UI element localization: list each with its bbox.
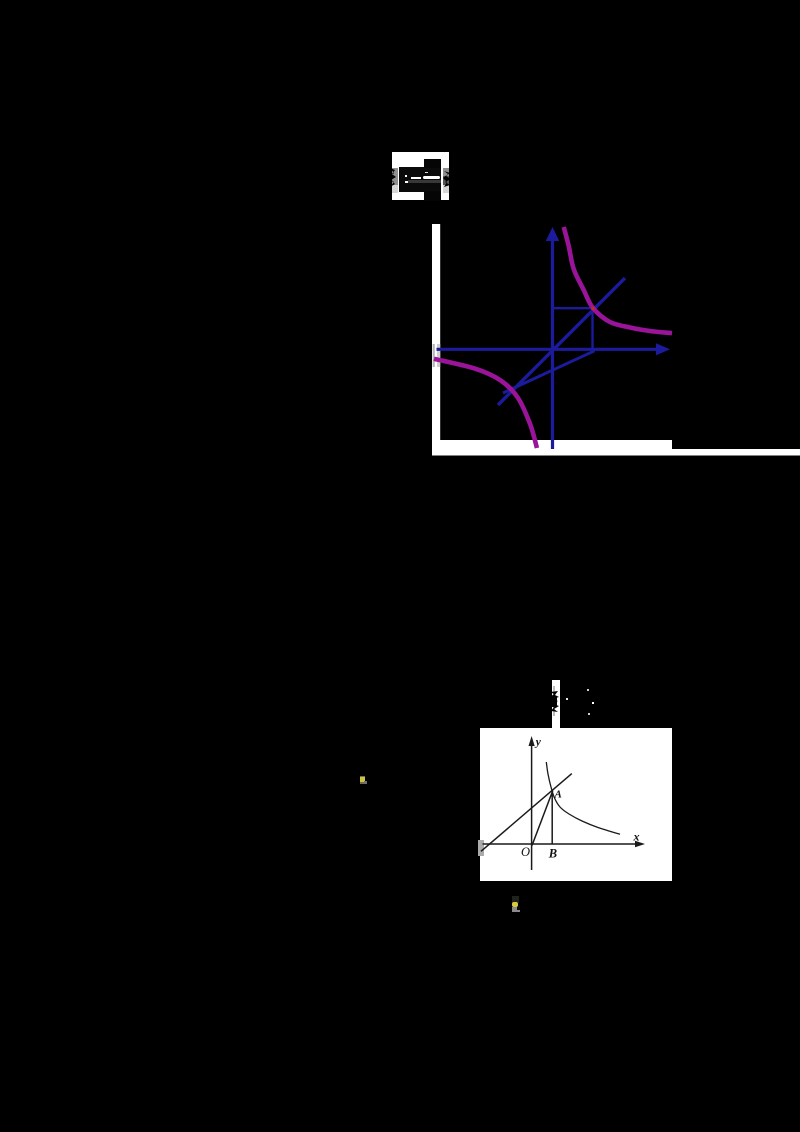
hyperbola upper branch (purple) (564, 227, 672, 333)
formula 1 right light gray patch (443, 185, 449, 193)
formula 1 right mid gray patch (443, 176, 449, 185)
x-axis (blue) (437, 348, 659, 351)
formula 1 white dot b (405, 181, 407, 183)
line OA (blue) (498, 278, 625, 405)
white speck b (587, 689, 589, 691)
line A'B (blue shallow) (503, 351, 595, 393)
svg-text:y: y (534, 737, 542, 749)
yellow icon 2 (512, 896, 520, 903)
gray smudge on left bar (433, 344, 435, 367)
white left bar (432, 224, 440, 455)
formula 1 white fraction bar (423, 176, 440, 179)
hyperbola (546, 762, 620, 834)
rectangle horizontal segment (553, 307, 593, 309)
white bottom bar (432, 440, 672, 456)
graph 2 white box (480, 728, 672, 881)
y-axis (blue) (551, 238, 554, 449)
formula 1 gray shadow band (408, 180, 441, 183)
white speck a (566, 698, 568, 700)
formula 1 right gray patch (443, 168, 449, 176)
white speck d (588, 713, 590, 715)
segment AB (551, 792, 553, 844)
formula 1 left light gray patch (392, 185, 398, 193)
formula 1 lower black tab (424, 191, 441, 201)
formula 1 small white dash top (425, 172, 428, 173)
yellow icon 1 (360, 776, 366, 784)
formula 1 right black squiggle (441, 170, 453, 188)
svg-text:A: A (554, 789, 562, 801)
x-axis arrowhead (635, 841, 645, 848)
formula 1 left black squiggle (388, 166, 402, 188)
rectangle vertical segment (591, 308, 593, 349)
formula 1 left gray patch (392, 168, 398, 185)
svg-text:O: O (521, 845, 530, 859)
formula strip 2 (white vertical sliver with glyphs) (552, 680, 560, 728)
graph 2 gray tab outside left edge (478, 840, 484, 856)
svg-text:B: B (548, 847, 557, 861)
svg-text:x: x (633, 830, 640, 844)
y-axis (531, 740, 533, 870)
graph 2 drawing (480, 728, 672, 881)
formula image 1 (y = -6/x) white box (392, 152, 449, 200)
formula 1 white minus dash (411, 177, 421, 179)
white bottom thin strip to right edge (672, 449, 800, 456)
graph 1 (hyperbola with blue axes) (420, 215, 800, 460)
x-axis (483, 843, 641, 845)
y-axis arrowhead (529, 736, 535, 746)
line O to A steep (532, 791, 553, 846)
strip black glyphs (549, 689, 562, 713)
formula 1 upper black tab (424, 159, 441, 168)
red point A (591, 307, 595, 311)
formula 1 black center block (399, 167, 441, 192)
line through O shallow (481, 774, 572, 852)
hyperbola lower branch (purple) (434, 359, 537, 448)
formula 1 white dot a (405, 175, 407, 177)
white speck c (592, 702, 594, 704)
strip gray smudge (553, 686, 555, 716)
